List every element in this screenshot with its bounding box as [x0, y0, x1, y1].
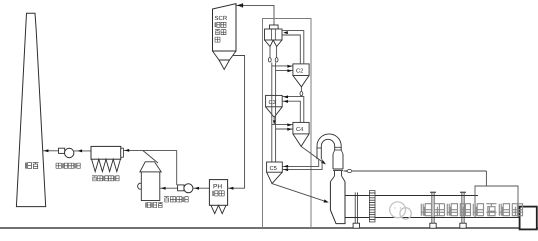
clinker cooler box: [475, 186, 518, 218]
C5 dust chute to smoke chamber with arrow: [272, 184, 329, 203]
label zeng-shi-ta: [145, 202, 163, 207]
tertiary air duct to cooler with arrow and valve: [344, 170, 487, 187]
chimney label yan-cong: [25, 163, 38, 169]
svg-text:SCR: SCR: [215, 15, 228, 22]
label qi: [215, 37, 220, 42]
label C3: [269, 99, 276, 106]
bag dust collector: [91, 146, 123, 171]
label yao-wei-shou-chen-qi: [92, 176, 119, 181]
wire fan to chimney with arrow: [43, 149, 59, 152]
svg-text:C4: C4: [296, 126, 304, 133]
C1 inlet duct from C2 riser with arrow: [282, 31, 304, 64]
preheater tower frame: [263, 19, 312, 229]
tail exhaust fan: [59, 148, 74, 158]
wire PH boiler to fan with arrow: [193, 187, 210, 190]
duct drop into humidifier dome (diagonal): [143, 150, 158, 163]
C3 riser (vertical pair): [272, 66, 276, 96]
gooseneck duct (kiln riser bend): [317, 134, 342, 159]
cyclone C1 (twin): [265, 25, 283, 47]
label tuo-xiao: [215, 22, 226, 27]
PH boiler: [209, 180, 227, 214]
wire fan to bag filter with arrow: [74, 149, 91, 152]
wire high-temp fan to tower with arrow: [160, 187, 178, 190]
kiln support pier 3: [460, 192, 466, 228]
C3 inlet duct from C4 riser with arrows: [282, 95, 304, 122]
cyclone C2: [293, 64, 309, 87]
C4 dust chute to kiln riser with arrow: [301, 146, 326, 164]
label gao-wen-feng-ji: [164, 197, 188, 202]
C5 inlet duct from gooseneck with arrows: [282, 159, 322, 171]
watermark text yan-qi-tuo-xiao-jie-jue-fang-an: [421, 204, 522, 216]
discharge box (dark): [520, 207, 537, 230]
C1 dust drops with flap valves: [268, 47, 278, 62]
humidifying tower: [138, 162, 162, 201]
high temperature fan: [178, 184, 193, 193]
C4 inlet duct from C5 riser with arrows: [272, 95, 293, 130]
wire down to high-temp fan: [176, 150, 178, 185]
SCR reactor: [213, 4, 237, 70]
ground line: [0, 227, 538, 229]
kiln support pier 2: [430, 192, 436, 228]
label C5: [270, 165, 277, 172]
C2 inlet duct from C3 riser with arrows: [272, 63, 293, 73]
label fan-ying: [215, 30, 226, 35]
label PH: [213, 183, 222, 190]
svg-text:C5: C5: [270, 165, 277, 172]
wire SCR outlet down to PH boiler with arrow: [228, 56, 245, 190]
kiln support pier 1: [353, 192, 359, 228]
chimney stack: [16, 13, 45, 206]
cyclone C4: [293, 122, 309, 146]
label C2: [296, 68, 303, 75]
rotary kiln shell: [345, 196, 519, 218]
label guo-lu: [213, 191, 224, 196]
label SCR: [215, 15, 228, 22]
svg-text:C2: C2: [296, 68, 303, 75]
C3 dust drop arrow: [273, 117, 276, 124]
cyclone C5: [267, 162, 283, 184]
cyclone C3: [266, 95, 283, 117]
label wei-pai-feng-ji: [56, 163, 80, 168]
wire bag filter to humidifier-top duct with arrow: [123, 149, 176, 152]
C2 dust drop with flap valve: [300, 87, 303, 97]
C5 riser (vertical pair): [272, 125, 276, 162]
label C4: [296, 126, 304, 133]
wire C1 outlet to SCR top with arrow and tick: [237, 3, 275, 25]
svg-text:PH: PH: [213, 183, 222, 190]
kiln girth gear ring: [369, 191, 375, 222]
kiln riser barrel and smoke chamber: [330, 150, 345, 224]
watermark wechat logo: [390, 202, 412, 219]
